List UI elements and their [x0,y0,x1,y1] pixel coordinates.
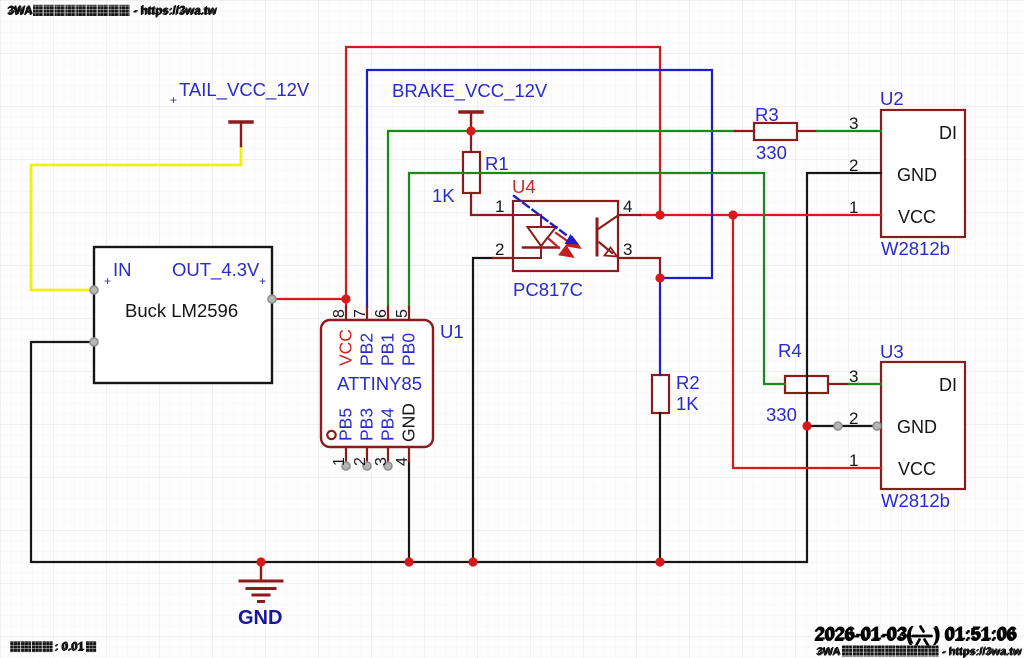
svg-text:1: 1 [849,198,858,217]
wire U4 pin 3 stub to junction (dark red) [618,258,660,278]
LED module U3 reference label [880,341,904,362]
status text bottom left [10,641,96,654]
svg-text:TAIL_VCC_12V: TAIL_VCC_12V [179,79,310,101]
svg-text:W2812b: W2812b [881,238,950,259]
svg-text:3WA: 3WA [817,646,841,658]
svg-text:PB5: PB5 [336,408,356,441]
svg-text:R4: R4 [778,340,802,361]
svg-text:3: 3 [373,457,390,466]
svg-text:+: + [170,93,177,107]
svg-text:+: + [104,274,111,288]
U1 pin number 7 (rotated) [352,309,369,318]
U1 pin number 8 (rotated) [331,309,348,318]
svg-text:GND: GND [238,607,282,629]
resistor R3 330 [754,123,797,140]
ground net label GND [238,607,282,629]
svg-text:1K: 1K [432,185,455,206]
U1 pin number 5 (rotated) [394,309,411,318]
svg-text:R3: R3 [755,104,779,125]
svg-text:1: 1 [495,197,504,216]
svg-text:7: 7 [352,309,369,318]
U1 pin name GND (rotated) [399,403,419,442]
svg-text:330: 330 [766,404,797,425]
wire GND branch: R2 bottom down to bus (black) [659,413,661,562]
U4 pin number 3 [623,240,632,259]
wire GND branch: ATTINY85 pin 4 down to bus (black) [408,461,410,562]
U1 pin name PB1 (rotated) [378,333,398,366]
svg-text:U3: U3 [880,341,904,362]
LED module U2 W2812b body [881,110,965,237]
wire TAIL_VCC_12V net (yellow) [31,146,241,290]
wire PB2 net: ATTINY85 pin 7 up over and down to U4 pin 3 junction (blue) [367,70,712,307]
wire R3 right lead (dark red) [797,130,817,132]
svg-text:- https://3wa.tw: - https://3wa.tw [943,646,1023,658]
svg-text:8: 8 [331,309,348,318]
svg-text:GND: GND [897,417,937,437]
U4 pin number 1 [495,197,504,216]
svg-text:PB0: PB0 [399,333,419,366]
svg-text:1: 1 [849,451,858,470]
power flag TAIL_VCC_12V symbol [230,122,252,146]
svg-text:2: 2 [495,240,504,259]
U2 pin name GND [897,165,937,185]
wire GND net: Buck GND pin to ground bus to U2 GND pin (black) [31,173,881,562]
svg-text:3: 3 [849,114,858,133]
svg-text:+: + [259,274,266,288]
LED module U3 value label W2812b [881,490,950,511]
LED module U3 W2812b body [881,362,965,489]
optocoupler U4 value label PC817C [513,279,583,300]
IC U1 ATTINY85 body [321,320,433,447]
svg-text:BRAKE_VCC_12V: BRAKE_VCC_12V [392,80,548,102]
svg-text:330: 330 [756,142,787,163]
resistor R2 reference label [676,372,700,393]
svg-text:Buck LM2596: Buck LM2596 [125,300,238,321]
resistor R4 reference label [778,340,802,361]
wire VCC: U4 pin 4 to U2 pin 1 VCC (red) [640,214,881,216]
U3 pin number 2 [849,409,858,428]
svg-text:- https://3wa.tw: - https://3wa.tw [134,5,217,17]
resistor R1 reference label [485,153,509,174]
wire VCC_4.3V rail up and over to U4 pin 4 (red) [346,47,660,299]
watermark bottom right [816,645,1023,658]
wire PB0 net: ATTINY85 pin 5 up right and down to R4 (green) [409,173,785,384]
net label BRAKE_VCC_12V [392,80,548,102]
pin stubs ATTINY85 top pins 8 7 6 5 (dark red) [346,307,409,320]
wire BRAKE junction down to R1 top (dark red) [470,131,472,152]
resistor R2 value label 1K [676,393,699,414]
net label TAIL_VCC_12V [170,79,310,107]
U2 pin number 3 [849,114,858,133]
open pin end circles (gray) [90,286,881,470]
U1 pin name PB5 (rotated) [336,408,356,441]
svg-text:PC817C: PC817C [513,279,583,300]
resistor R1 value label 1K [432,185,455,206]
svg-text:: 0.01: : 0.01 [55,641,85,653]
svg-text:PB1: PB1 [378,333,398,366]
optocoupler U4 internal phototransistor [597,216,618,257]
svg-text:OUT_4.3V: OUT_4.3V [172,259,260,281]
optocoupler U4 reference label [512,176,536,197]
U3 pin name VCC [898,459,936,479]
pin stubs ATTINY85 bottom pins 1 2 3 4 (dark red) [346,447,409,462]
wire U4 pin 2 stub (dark red) [493,257,513,259]
svg-text:ATTINY85: ATTINY85 [337,373,422,394]
svg-text:R2: R2 [676,372,700,393]
LED module U2 reference label [880,88,904,109]
svg-text:4: 4 [394,457,411,466]
U1 pin number 2 (rotated) [352,457,369,466]
U1 pin name VCC (rotated) [336,329,356,366]
svg-text:3: 3 [623,240,632,259]
svg-text:PB2: PB2 [357,333,377,366]
svg-text:W2812b: W2812b [881,490,950,511]
svg-text:PB4: PB4 [378,408,398,441]
module Buck LM2596 body [94,247,272,383]
U2 pin number 1 [849,198,858,217]
U4 pin number 2 [495,240,504,259]
resistor R2 1K [652,375,669,413]
U1 pin number 3 (rotated) [373,457,390,466]
svg-text:3: 3 [849,367,858,386]
U3 pin number 1 [849,451,858,470]
svg-text:1K: 1K [676,393,699,414]
Buck module pin label IN [104,259,132,288]
U4 annotation leader arrow (blue dashed) [514,196,578,244]
svg-text:2: 2 [849,409,858,428]
resistor R4 330 [785,376,828,393]
svg-text:GND: GND [399,403,419,442]
wire R4 right lead (dark red) [828,383,849,385]
U1 pin number 6 (rotated) [373,309,390,318]
Buck module value label [125,300,238,321]
U1 pin number 1 (rotated) [331,457,348,466]
U1 pin name PB2 (rotated) [357,333,377,366]
Buck module pin label OUT_4.3V [172,259,266,288]
junction dots (red) [256,126,811,566]
svg-text:GND: GND [897,165,937,185]
svg-text:IN: IN [113,259,132,280]
wire VCC_4.3V drop to ATTINY85 pin 8 (red) [345,299,347,307]
wire GND branch to U3 pin 2 (black) [807,425,881,427]
wire GND branch: U4 pin 2 down to bus (black) [473,258,493,562]
wire R3 to U2 pin 3 DI (green) [817,130,881,132]
U2 pin number 2 [849,156,858,175]
svg-text:5: 5 [394,309,411,318]
svg-text:PB3: PB3 [357,408,377,441]
svg-text:6: 6 [373,309,390,318]
wire R3 left lead (dark red) [735,130,754,132]
svg-text:U4: U4 [512,176,536,197]
svg-text:VCC: VCC [898,459,936,479]
svg-text:2: 2 [849,156,858,175]
resistor R1 1K [463,152,480,193]
wire PB1 net: ATTINY85 pin 6 up and right to R3 (green) [388,131,735,307]
watermark top left [7,5,217,18]
optocoupler U4 coupling arrows (red) [549,233,580,257]
svg-text:DI: DI [939,123,957,143]
power flag BRAKE_VCC_12V symbol [460,112,482,131]
ground symbol [240,562,282,602]
pin-1 indicator circle on U1 [327,431,335,439]
LED module U2 value label W2812b [881,238,950,259]
svg-text:1: 1 [331,457,348,466]
wire VCC_4.3V: Buck OUT to junction (red) [272,298,346,300]
wire U4 pin 4 stub (dark red) [618,214,640,216]
IC U1 value label ATTINY85 [337,373,422,394]
svg-text:U1: U1 [440,321,464,342]
svg-text:VCC: VCC [336,329,356,366]
U4 pin number 4 [623,197,632,216]
IC U1 reference label [440,321,464,342]
U2 pin name VCC [898,207,936,227]
svg-text:R1: R1 [485,153,509,174]
svg-text:VCC: VCC [898,207,936,227]
timestamp bottom right [814,624,1018,649]
svg-text:3WA: 3WA [8,5,33,17]
wire R1 bottom to U4 pin 1 (dark red) [471,193,513,215]
svg-text:DI: DI [939,375,957,395]
wire R4 to U3 pin 3 DI (green) [849,383,881,385]
U3 pin number 3 [849,367,858,386]
U2 pin name DI [939,123,957,143]
U3 pin name GND [897,417,937,437]
U1 pin number 4 (rotated) [394,457,411,466]
resistor R4 value label 330 [766,404,797,425]
resistor R3 value label 330 [756,142,787,163]
svg-text:2026-01-03(: 2026-01-03( [816,624,914,644]
resistor R3 reference label [755,104,779,125]
optocoupler U4 PC817C body [513,201,618,271]
svg-text:2: 2 [352,457,369,466]
U1 pin name PB3 (rotated) [357,408,377,441]
U1 pin name PB0 (rotated) [399,333,419,366]
wire VCC: junction down to U3 pin 1 VCC (red) [733,215,881,468]
U3 pin name DI [939,375,957,395]
svg-text:4: 4 [623,197,632,216]
wire PB2 net: junction down to R2 top (blue) [659,278,661,375]
svg-text:U2: U2 [880,88,904,109]
optocoupler U4 internal LED [513,215,559,258]
U1 pin name PB4 (rotated) [378,408,398,441]
svg-text:) 01:51:06: ) 01:51:06 [935,624,1018,644]
